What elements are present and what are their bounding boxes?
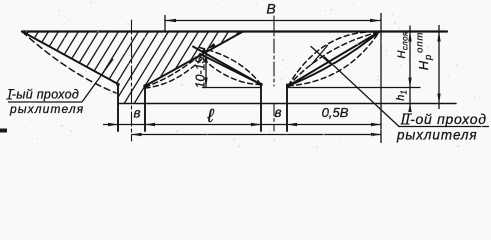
serif bars on numeral II xyxy=(401,114,413,124)
ridge top reference line right segment xyxy=(287,87,420,89)
pass1 right zone boundary dashed inner xyxy=(145,53,203,87)
svg-text:10-15: 10-15 xyxy=(194,56,208,88)
dimension B left extension xyxy=(164,15,166,32)
scan speck at left edge xyxy=(0,129,7,133)
dimension H sloya / h1 vertical line xyxy=(409,26,411,113)
10-15 arrows xyxy=(204,53,207,63)
slot 2 left wall xyxy=(260,85,262,132)
svg-text:в: в xyxy=(133,106,140,121)
pass2 left lens dashed lower xyxy=(199,55,261,85)
slot1 right corner junction blob xyxy=(143,84,146,87)
slot 2 centerline lower xyxy=(273,104,275,132)
leader line label II xyxy=(324,57,399,127)
label II underline xyxy=(398,126,489,128)
dimension 10-15 vertical line xyxy=(205,53,207,88)
label I underline xyxy=(8,101,82,103)
x mark on pass2 zone xyxy=(311,47,330,64)
svg-text:I-ый проход: I-ый проход xyxy=(8,88,79,102)
pass2 right lens dashed outer upper xyxy=(288,32,379,86)
pass2 right lens solid 1 xyxy=(288,32,379,86)
slot 2 centerline upper xyxy=(273,16,275,86)
scan noise xyxy=(10,2,482,148)
svg-text:ℓ: ℓ xyxy=(206,106,214,127)
arrowheads xyxy=(108,19,441,136)
serif bars on numeral I xyxy=(6,90,15,99)
svg-text:рыхлителя: рыхлителя xyxy=(396,128,478,143)
pass2 right lens dashed inner upper xyxy=(288,32,379,86)
B dim arrows xyxy=(165,19,176,22)
pass1 left zone boundary dashed xyxy=(22,32,116,94)
pass2 left lens dashed upper xyxy=(197,47,261,85)
bottom row arrows xyxy=(108,123,118,126)
Hp opt arrows xyxy=(437,32,440,42)
bottom second dimension line xyxy=(132,134,382,136)
h1 bottom arrow xyxy=(408,104,411,113)
slot2 left corner junction blob xyxy=(259,83,262,86)
slot 1 centerline xyxy=(131,20,133,141)
ridge top reference line left segment xyxy=(203,87,262,89)
svg-text:рыхлителя: рыхлителя xyxy=(9,102,84,116)
svg-text:В: В xyxy=(266,1,275,17)
hatched loosened zone of pass 1 xyxy=(0,29,290,107)
peak junction blob xyxy=(202,49,206,53)
svg-text:II-ой проход: II-ой проход xyxy=(401,111,487,127)
pass1 left zone boundary solid xyxy=(22,32,118,85)
bottom second dim arrows xyxy=(132,133,142,136)
ground surface line xyxy=(22,30,447,32)
slot2 right corner junction blob xyxy=(286,84,289,87)
pass2 right lens dashed lower xyxy=(288,32,379,86)
slot 1 left wall xyxy=(117,84,119,131)
svg-text:в: в xyxy=(274,105,281,120)
bottom of ripped layer line xyxy=(118,103,456,105)
dimension lines xyxy=(8,13,489,143)
pass1 right zone boundary solid xyxy=(145,32,243,87)
H sloya arrows xyxy=(408,32,411,42)
slot1 left corner junction blob xyxy=(116,83,119,86)
bottom dimension row line xyxy=(103,124,381,126)
pass2 left lens solid 1 xyxy=(193,47,261,85)
right long extension line at 0.5B end xyxy=(380,13,382,143)
slot 2 right wall xyxy=(286,85,288,132)
dimension B line xyxy=(165,20,381,22)
dimension Hp opt vertical line xyxy=(438,25,440,109)
slot 1 right wall xyxy=(144,86,146,131)
pass1 right zone boundary dashed outer xyxy=(145,56,205,88)
pass2 left lens solid 2 xyxy=(200,54,261,85)
pass2 right lens solid 2 xyxy=(288,32,379,86)
svg-text:0,5В: 0,5В xyxy=(322,105,349,120)
arrowhead at peak on pass1 boundary xyxy=(207,43,216,49)
leader line label I xyxy=(82,59,113,102)
